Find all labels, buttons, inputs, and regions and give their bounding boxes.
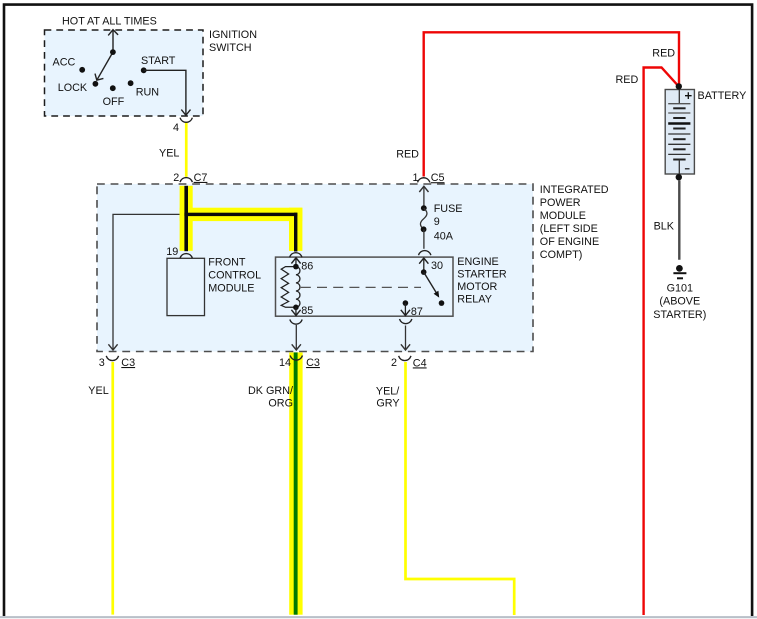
svg-text:COMPT): COMPT) [540, 249, 583, 261]
svg-text:1: 1 [412, 172, 418, 184]
svg-text:FUSE: FUSE [434, 203, 463, 215]
svg-text:MOTOR: MOTOR [457, 281, 497, 293]
svg-text:86: 86 [301, 260, 313, 272]
svg-text:C7: C7 [194, 172, 208, 184]
svg-text:RELAY: RELAY [457, 293, 492, 305]
svg-text:G101: G101 [667, 283, 693, 295]
svg-text:RUN: RUN [136, 87, 159, 99]
svg-text:CONTROL: CONTROL [208, 270, 261, 282]
svg-text:SWITCH: SWITCH [209, 42, 252, 54]
svg-text:C3: C3 [121, 357, 135, 369]
svg-text:OF ENGINE: OF ENGINE [540, 236, 599, 248]
svg-text:ORG: ORG [268, 398, 293, 410]
svg-text:OFF: OFF [103, 96, 125, 108]
svg-text:2: 2 [173, 172, 179, 184]
svg-text:BLK: BLK [654, 221, 675, 233]
svg-text:RED: RED [396, 149, 419, 161]
svg-text:RED: RED [616, 74, 639, 86]
svg-text:C5: C5 [431, 172, 445, 184]
svg-text:YEL/: YEL/ [376, 386, 399, 398]
svg-text:40A: 40A [434, 230, 454, 242]
svg-text:4: 4 [173, 122, 179, 134]
svg-text:C3: C3 [306, 357, 320, 369]
svg-text:FRONT: FRONT [208, 257, 246, 269]
svg-text:87: 87 [411, 306, 423, 318]
svg-text:MODULE: MODULE [540, 210, 586, 222]
svg-text:85: 85 [301, 305, 313, 317]
svg-text:30: 30 [431, 260, 443, 272]
svg-text:STARTER): STARTER) [653, 309, 706, 321]
svg-text:IGNITION: IGNITION [209, 29, 257, 41]
svg-text:YEL: YEL [88, 385, 108, 397]
svg-text:19: 19 [166, 246, 178, 258]
svg-text:YEL: YEL [159, 148, 179, 160]
svg-text:DK GRN/: DK GRN/ [248, 385, 293, 397]
svg-text:LOCK: LOCK [58, 82, 88, 94]
svg-text:C4: C4 [413, 357, 427, 369]
svg-text:POWER: POWER [540, 197, 581, 209]
svg-text:14: 14 [279, 357, 291, 369]
svg-text:(LEFT SIDE: (LEFT SIDE [540, 223, 598, 235]
svg-text:2: 2 [391, 357, 397, 369]
svg-text:RED: RED [652, 48, 675, 60]
svg-text:9: 9 [434, 216, 440, 228]
svg-text:MODULE: MODULE [208, 282, 254, 294]
svg-text:HOT AT ALL TIMES: HOT AT ALL TIMES [62, 15, 157, 27]
svg-text:3: 3 [99, 357, 105, 369]
svg-text:INTEGRATED: INTEGRATED [540, 184, 609, 196]
svg-text:ACC: ACC [53, 56, 76, 68]
svg-text:GRY: GRY [376, 398, 399, 410]
svg-text:START: START [141, 55, 176, 67]
svg-text:STARTER: STARTER [457, 269, 507, 281]
svg-text:(ABOVE: (ABOVE [659, 296, 700, 308]
svg-text:ENGINE: ENGINE [457, 256, 498, 268]
svg-text:BATTERY: BATTERY [698, 90, 747, 102]
